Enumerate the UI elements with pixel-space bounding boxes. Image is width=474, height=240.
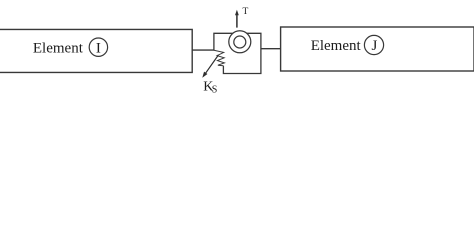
svg-text:J: J [372, 38, 378, 54]
svg-text:S: S [212, 85, 218, 96]
svg-text:Element: Element [311, 38, 362, 54]
svg-text:I: I [96, 40, 101, 56]
svg-text:Element: Element [33, 40, 84, 56]
svg-text:T: T [243, 7, 249, 17]
